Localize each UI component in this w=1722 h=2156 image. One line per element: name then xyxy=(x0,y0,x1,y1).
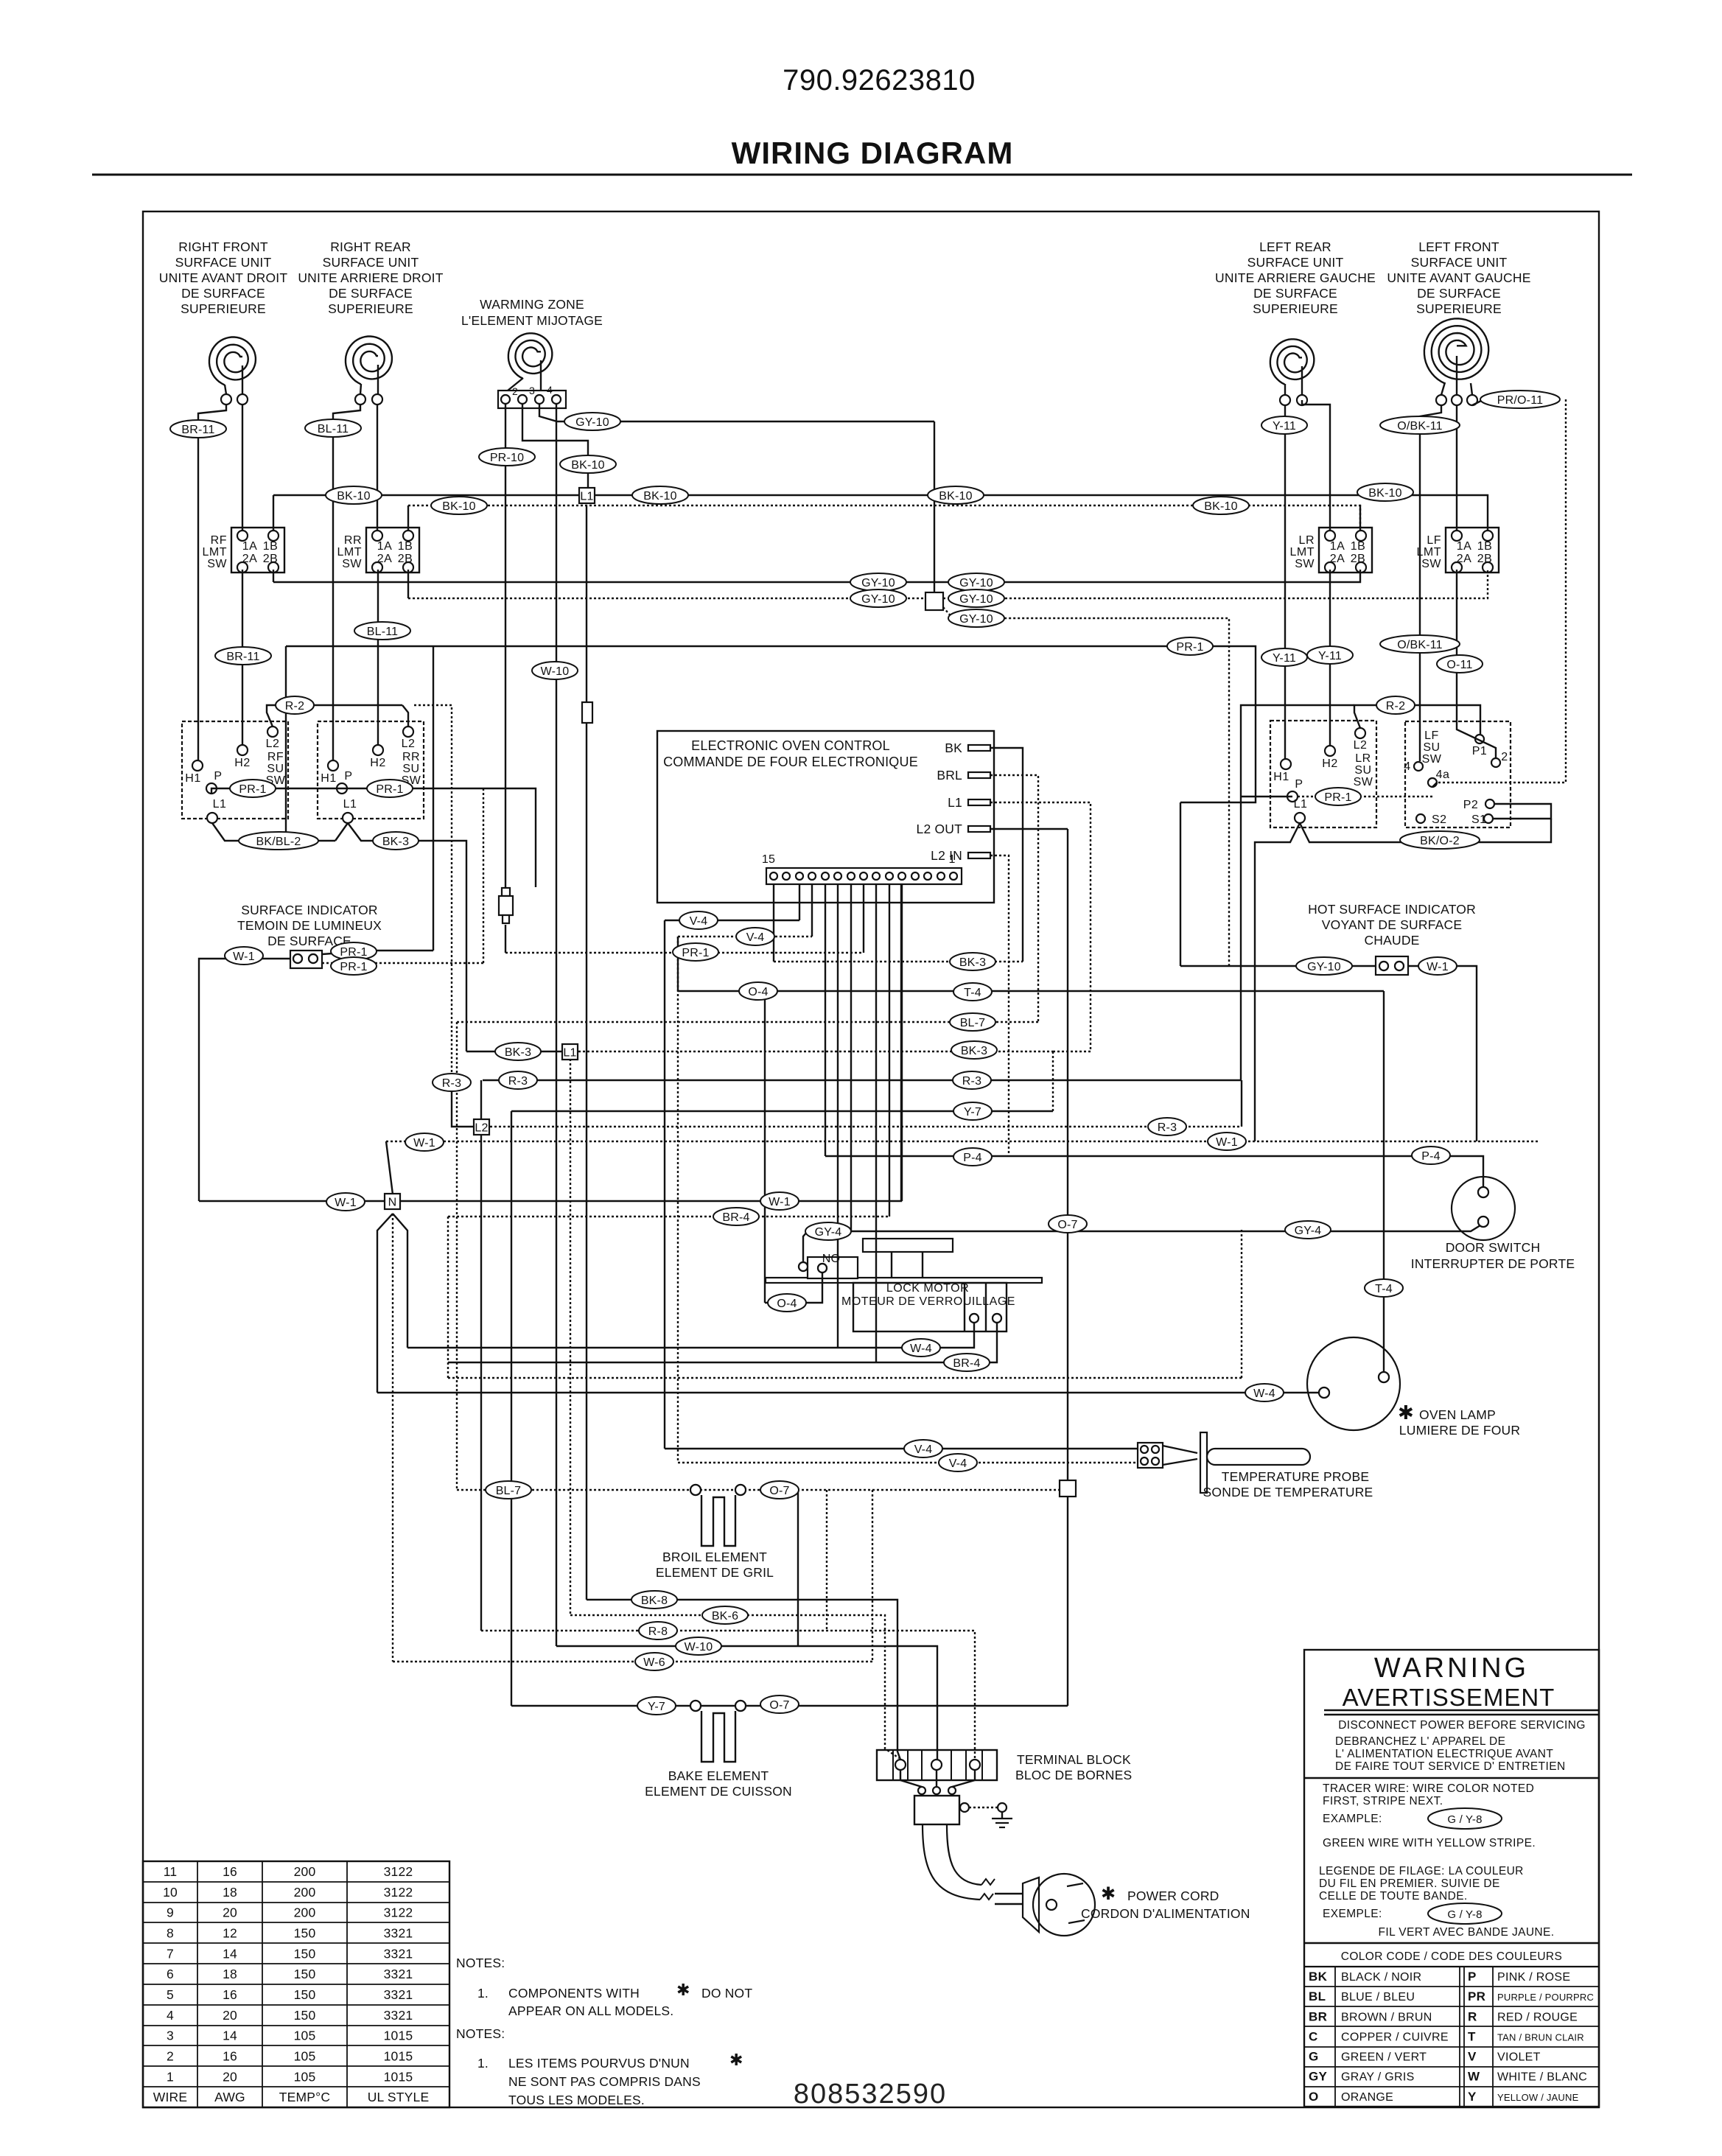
wire PR/O-11 LF xyxy=(1472,399,1553,405)
svg-text:BK-3: BK-3 xyxy=(505,1046,531,1059)
tb link xyxy=(900,1771,922,1787)
wire label W-10 xyxy=(676,1637,721,1655)
svg-text:200: 200 xyxy=(294,1905,316,1920)
svg-text:H1: H1 xyxy=(1273,771,1289,783)
wire label BL-11 xyxy=(354,622,410,640)
wire RR 2A to H2 BL-11 xyxy=(377,570,379,745)
svg-text:FIRST, STRIPE NEXT.: FIRST, STRIPE NEXT. xyxy=(1323,1795,1443,1807)
wire L2 IN pin xyxy=(990,855,1009,1156)
svg-text:S1: S1 xyxy=(1471,813,1487,826)
wire BK-10 bus solid xyxy=(273,494,579,496)
wire riser 1685 upper xyxy=(1241,1080,1242,1127)
svg-text:SURFACE UNIT: SURFACE UNIT xyxy=(175,255,272,270)
LF coil stem2 xyxy=(1456,356,1457,395)
wire LR L1 drop xyxy=(1255,823,1300,1141)
svg-text:PURPLE / POURPRC: PURPLE / POURPRC xyxy=(1497,1992,1594,2003)
wire label BK-10 xyxy=(632,486,688,504)
wire T-4 vertical xyxy=(1383,991,1385,1372)
svg-text:1A: 1A xyxy=(377,540,393,553)
svg-text:H1: H1 xyxy=(321,772,336,785)
probe lead xyxy=(1163,1446,1197,1453)
RR limit switch xyxy=(337,528,420,573)
svg-text:CHAUDE: CHAUDE xyxy=(1364,933,1419,948)
svg-text:BK-3: BK-3 xyxy=(959,956,986,969)
svg-text:L2: L2 xyxy=(475,1122,488,1135)
wire V-4 riser 1 xyxy=(664,920,665,1449)
svg-text:T-4: T-4 xyxy=(964,987,981,999)
junction L1 xyxy=(579,488,595,503)
svg-text:12: 12 xyxy=(223,1925,237,1940)
svg-text:ELEMENT DE GRIL: ELEMENT DE GRIL xyxy=(656,1565,774,1580)
svg-text:TAN / BRUN CLAIR: TAN / BRUN CLAIR xyxy=(1497,2031,1584,2043)
junction O-7 xyxy=(1060,1480,1076,1497)
wire R-3 line xyxy=(483,1079,1241,1081)
svg-text:INTERRUPTER DE PORTE: INTERRUPTER DE PORTE xyxy=(1411,1256,1575,1271)
svg-text:3321: 3321 xyxy=(384,2008,413,2023)
power cord xyxy=(923,1824,980,1900)
LR SU SW terminals xyxy=(1355,728,1365,738)
svg-text:1015: 1015 xyxy=(384,2069,413,2084)
svg-text:200: 200 xyxy=(294,1885,316,1900)
svg-text:✱: ✱ xyxy=(1101,1884,1116,1904)
tb link xyxy=(952,1771,975,1787)
svg-text:R-2: R-2 xyxy=(1386,700,1405,713)
svg-text:LES ITEMS POURVUS D'NUN: LES ITEMS POURVUS D'NUN xyxy=(508,2056,690,2071)
wire label Y-7 xyxy=(637,1697,676,1715)
svg-text:20: 20 xyxy=(223,2008,237,2023)
svg-text:PR-1: PR-1 xyxy=(1324,791,1351,804)
wire label BR-11 xyxy=(170,420,226,438)
svg-text:7: 7 xyxy=(167,1946,174,1961)
wire strip t8 drop xyxy=(863,884,864,953)
wire 4a lead xyxy=(1432,783,1437,787)
svg-text:PR-1: PR-1 xyxy=(340,961,367,973)
svg-text:R-3: R-3 xyxy=(508,1075,528,1088)
svg-text:L2: L2 xyxy=(1354,739,1368,752)
svg-text:GRAY / GRIS: GRAY / GRIS xyxy=(1341,2071,1415,2084)
svg-text:H1: H1 xyxy=(185,772,200,785)
wire BK/O-2 line xyxy=(1300,819,1551,842)
svg-text:UNITE AVANT DROIT: UNITE AVANT DROIT xyxy=(159,270,288,285)
bake zigzag xyxy=(701,1711,735,1762)
wire L2 OUT pin xyxy=(990,828,1068,830)
wire label BK-10 xyxy=(431,497,487,514)
wire label V-4 xyxy=(679,911,718,929)
svg-text:SUPERIEURE: SUPERIEURE xyxy=(328,301,413,316)
svg-text:BL-7: BL-7 xyxy=(960,1017,986,1029)
svg-text:UNITE ARRIERE DROIT: UNITE ARRIERE DROIT xyxy=(298,270,443,285)
svg-text:PINK / ROSE: PINK / ROSE xyxy=(1497,1971,1570,1984)
wire label Y-11 xyxy=(1307,646,1353,664)
svg-text:WIRE: WIRE xyxy=(153,2090,188,2104)
svg-text:R-3: R-3 xyxy=(962,1075,981,1088)
svg-text:PR: PR xyxy=(1468,1989,1485,2003)
svg-text:W-1: W-1 xyxy=(335,1197,357,1209)
svg-text:LMT: LMT xyxy=(1290,546,1315,559)
wire O-4 lock line xyxy=(765,1273,822,1303)
svg-text:EXEMPLE:: EXEMPLE: xyxy=(1323,1908,1382,1920)
svg-text:2A: 2A xyxy=(242,553,258,565)
wire N to W-4 slant xyxy=(393,1214,407,1348)
svg-text:9: 9 xyxy=(167,1905,174,1920)
wire strip t5 drop xyxy=(901,884,903,1201)
svg-text:1B: 1B xyxy=(1477,540,1493,553)
RF limit switch xyxy=(203,528,285,573)
wire LF 2A down O-11 xyxy=(1457,570,1496,758)
svg-text:BK: BK xyxy=(1309,1970,1328,1984)
svg-text:GY-10: GY-10 xyxy=(861,593,895,606)
svg-text:1: 1 xyxy=(167,2069,174,2084)
svg-text:BK/BL-2: BK/BL-2 xyxy=(256,836,301,848)
junction L1 lower xyxy=(562,1044,578,1060)
wire N to lamp slant xyxy=(377,1214,393,1393)
svg-text:P: P xyxy=(344,770,352,783)
svg-text:L1: L1 xyxy=(343,798,357,811)
svg-text:S2: S2 xyxy=(1432,813,1447,826)
ground lead xyxy=(969,1807,998,1808)
svg-text:14: 14 xyxy=(223,2029,237,2043)
svg-text:BROIL ELEMENT: BROIL ELEMENT xyxy=(662,1550,767,1564)
terminal block lower connector xyxy=(914,1796,959,1824)
svg-text:10: 10 xyxy=(163,1885,178,1900)
junction L2 xyxy=(474,1119,489,1135)
wire label PR-1 xyxy=(367,780,413,797)
wire BK-3 line upper xyxy=(774,961,1023,962)
wire O-4 riser xyxy=(677,937,679,991)
hot surface indicator lamp xyxy=(1376,956,1408,975)
svg-text:P: P xyxy=(214,770,222,783)
wire label P-4 xyxy=(1412,1147,1450,1164)
svg-text:ELEMENT DE CUISSON: ELEMENT DE CUISSON xyxy=(645,1784,792,1799)
svg-text:2A: 2A xyxy=(377,553,393,565)
wire BR-4 left riser xyxy=(447,1217,449,1378)
svg-text:DU FIL EN PREMIER. SUIVIE: DU FIL EN PREMIER. SUIVIE DE xyxy=(1319,1877,1500,1890)
wire label O-7 xyxy=(760,1695,799,1713)
svg-text:808532590: 808532590 xyxy=(794,2079,947,2110)
svg-text:BR-4: BR-4 xyxy=(722,1211,749,1224)
svg-text:DE SURFACE: DE SURFACE xyxy=(1253,286,1337,301)
wire W-1 line xyxy=(386,1141,393,1194)
svg-text:WHITE / BLANC: WHITE / BLANC xyxy=(1497,2071,1587,2084)
lock motor box xyxy=(853,1283,1007,1331)
svg-text:4: 4 xyxy=(1404,760,1410,773)
svg-text:SURFACE INDICATOR: SURFACE INDICATOR xyxy=(241,903,378,917)
wire R-2 RF L2 xyxy=(267,705,279,727)
RF coil stem xyxy=(225,385,226,394)
wire label PR-1 xyxy=(230,780,276,797)
wire strip t13 drop xyxy=(799,884,800,920)
wire label PR-1 xyxy=(331,942,377,960)
wire label W-4 xyxy=(1245,1384,1284,1401)
svg-text:G: G xyxy=(1309,2050,1319,2064)
wire Y-7 bake line xyxy=(511,1705,1068,1707)
svg-text:P-4: P-4 xyxy=(963,1152,982,1164)
svg-text:RR: RR xyxy=(402,751,420,763)
svg-text:R-8: R-8 xyxy=(648,1625,668,1638)
wire N feed down xyxy=(392,1214,393,1662)
svg-text:Y-7: Y-7 xyxy=(964,1106,981,1119)
wire Y-7 riser xyxy=(511,1111,512,1706)
wire label BR-4 xyxy=(944,1354,990,1371)
svg-text:16: 16 xyxy=(223,1864,237,1879)
wire label GY-10 xyxy=(1296,957,1352,975)
surface switch LR SU SW xyxy=(1270,721,1376,827)
wire V-4 probe 1 xyxy=(665,1448,1138,1449)
wire label BL-7 xyxy=(950,1013,995,1031)
wire RR 2B to GY bus xyxy=(407,570,409,598)
svg-text:PR-1: PR-1 xyxy=(682,947,709,959)
svg-text:20: 20 xyxy=(223,1905,237,1920)
svg-text:ORANGE: ORANGE xyxy=(1341,2091,1393,2104)
svg-text:R-2: R-2 xyxy=(285,700,304,713)
svg-text:RF: RF xyxy=(267,751,284,763)
svg-text:RR: RR xyxy=(344,534,362,547)
wire label O-7 xyxy=(1049,1215,1087,1233)
wire label GY-10 xyxy=(948,589,1004,607)
wire strip t9 drop xyxy=(850,884,852,1231)
wire label O-4 xyxy=(739,982,777,1000)
fuse on L1 line xyxy=(582,702,592,723)
wire GY-10 bus upper xyxy=(273,570,1360,582)
wire PR-1 LR P right xyxy=(1298,796,1432,797)
wire label W-6 xyxy=(635,1653,673,1670)
wire label Y-7 xyxy=(953,1102,992,1120)
wire label GY-4 xyxy=(805,1222,851,1240)
wire O-4 lock riser xyxy=(764,991,766,1303)
svg-text:18: 18 xyxy=(223,1967,237,1981)
svg-text:TEMP°C: TEMP°C xyxy=(279,2090,330,2104)
wire label GY-4 xyxy=(1285,1221,1331,1239)
wire W-1 long line xyxy=(386,1141,1540,1142)
wire RF right terminal to 1A xyxy=(242,405,243,531)
svg-text:P-4: P-4 xyxy=(1421,1150,1441,1163)
svg-text:BK-6: BK-6 xyxy=(712,1610,738,1623)
svg-text:W-10: W-10 xyxy=(541,665,570,678)
svg-text:LF: LF xyxy=(1427,534,1441,547)
lock motor cam xyxy=(863,1239,953,1252)
wire PR-1 riser 656 xyxy=(483,788,484,963)
svg-text:TRACER WIRE: WIRE COLOR NOTED: TRACER WIRE: WIRE COLOR NOTED xyxy=(1323,1782,1534,1795)
svg-text:2: 2 xyxy=(1501,751,1508,763)
wire label R-3 xyxy=(953,1071,991,1089)
wire BRL pin xyxy=(990,775,1038,1022)
wire Y-11 LR H1 xyxy=(1284,405,1286,759)
svg-text:BK-3: BK-3 xyxy=(382,836,409,848)
fuse on PR-10 line xyxy=(502,888,510,896)
wire P2 S1 loop xyxy=(1493,804,1551,819)
svg-text:6: 6 xyxy=(167,1967,174,1981)
wire label O/BK-11 xyxy=(1380,635,1460,653)
svg-text:R: R xyxy=(1468,2009,1477,2023)
wire PR-1 LR P xyxy=(1241,796,1292,797)
wire label V-4 xyxy=(939,1454,977,1471)
svg-text:T-4: T-4 xyxy=(1375,1283,1393,1295)
svg-text:LMT: LMT xyxy=(203,546,228,559)
wire label W-1 xyxy=(326,1193,365,1211)
svg-text:BK-10: BK-10 xyxy=(1204,500,1237,513)
svg-text:GY-10: GY-10 xyxy=(1307,961,1341,973)
wire R-2 left branch xyxy=(1241,705,1354,1080)
wire label GY-10 xyxy=(948,609,1004,627)
wire label GY-10 xyxy=(948,573,1004,591)
RF coil stem2 xyxy=(242,365,243,394)
surface indicator lamp xyxy=(290,951,322,968)
wire label BK-8 xyxy=(631,1591,677,1609)
svg-text:3321: 3321 xyxy=(384,1925,413,1940)
svg-text:PR-1: PR-1 xyxy=(1176,641,1203,654)
svg-text:1.: 1. xyxy=(477,2056,489,2071)
svg-text:L2: L2 xyxy=(402,738,416,750)
svg-text:SW: SW xyxy=(1354,776,1373,788)
svg-text:YELLOW / JAUNE: YELLOW / JAUNE xyxy=(1497,2092,1579,2103)
wire label GY-10 xyxy=(850,573,906,591)
wire PR-1 fuse line xyxy=(505,952,864,953)
element terminals overlay xyxy=(690,1485,701,1495)
wire BK-3 RR L1 xyxy=(348,823,466,1051)
svg-text:WARMING ZONE: WARMING ZONE xyxy=(480,297,584,312)
svg-text:W-4: W-4 xyxy=(910,1343,932,1355)
wire label GY-10 xyxy=(850,589,906,607)
svg-text:O-7: O-7 xyxy=(769,1485,789,1497)
svg-text:H2: H2 xyxy=(234,757,250,769)
svg-text:L1: L1 xyxy=(213,798,227,811)
svg-text:O/BK-11: O/BK-11 xyxy=(1397,639,1443,651)
probe lead xyxy=(1163,1459,1197,1465)
svg-text:Y-11: Y-11 xyxy=(1318,650,1342,662)
svg-text:SU: SU xyxy=(1354,764,1371,777)
wire label V-4 xyxy=(736,928,774,945)
cam leg xyxy=(891,1252,892,1278)
svg-text:GY-4: GY-4 xyxy=(1295,1225,1322,1237)
wire R-8 line xyxy=(481,1631,975,1760)
wire BK-8 line xyxy=(587,1600,900,1760)
wire RF 2B to GY bus xyxy=(273,570,274,582)
svg-text:PR/O-11: PR/O-11 xyxy=(1497,394,1543,407)
svg-text:V-4: V-4 xyxy=(914,1443,933,1456)
svg-text:SUPERIEURE: SUPERIEURE xyxy=(1416,301,1502,316)
wire label V-4 xyxy=(904,1440,942,1457)
svg-text:BK: BK xyxy=(945,741,962,755)
wire V-4 line 2 xyxy=(678,936,812,937)
svg-text:SURFACE UNIT: SURFACE UNIT xyxy=(1411,255,1508,270)
svg-text:LR: LR xyxy=(1355,752,1371,765)
svg-text:BL-11: BL-11 xyxy=(367,626,399,638)
LF coil stem xyxy=(1441,382,1445,395)
wire BK-3 line lower right xyxy=(578,1051,1053,1052)
lock motor divider xyxy=(985,1283,987,1331)
cord lead xyxy=(995,1903,1023,1905)
LF coil stem3 xyxy=(1471,383,1472,395)
wire RF 2A to H2 BR-11 xyxy=(242,570,243,745)
wire W-1 N line xyxy=(199,1200,385,1202)
wire GY-10 warming 3 xyxy=(539,404,934,421)
wire PR-1 riser 588 xyxy=(433,646,434,951)
svg-text:OVEN LAMP: OVEN LAMP xyxy=(1419,1407,1496,1422)
svg-text:POWER CORD: POWER CORD xyxy=(1127,1889,1219,1903)
wire R-2 right to P1 xyxy=(1368,705,1480,734)
svg-text:V-4: V-4 xyxy=(690,915,708,928)
wire label PR-10 xyxy=(479,448,535,466)
wire label PR-1 xyxy=(1315,788,1361,805)
wire R-2 RR L2 xyxy=(402,705,408,727)
svg-text:W-1: W-1 xyxy=(1427,961,1449,973)
LR coil stem xyxy=(1284,384,1286,395)
svg-text:4: 4 xyxy=(547,384,553,396)
svg-text:BAKE ELEMENT: BAKE ELEMENT xyxy=(668,1768,769,1783)
wire label BK-10 xyxy=(928,486,984,504)
wire R-2 right link xyxy=(1354,705,1368,728)
wire label BK-3 xyxy=(951,1041,997,1059)
svg-text:DE FAIRE TOUT SERVICE D' E: DE FAIRE TOUT SERVICE D' ENTRETIEN xyxy=(1335,1760,1566,1773)
svg-text:C: C xyxy=(1309,2029,1318,2043)
svg-text:COMPONENTS WITH: COMPONENTS WITH xyxy=(508,1986,640,2001)
surface unit coil RF xyxy=(209,337,256,385)
wire O/BK-11 LF xyxy=(1420,405,1441,761)
svg-text:150: 150 xyxy=(294,1925,316,1940)
svg-text:Y-11: Y-11 xyxy=(1273,420,1296,433)
wire label P-4 xyxy=(953,1148,992,1166)
wire PR-1 riser left xyxy=(285,646,287,841)
svg-text:SW: SW xyxy=(1421,558,1441,570)
wire GY-10 junction drop xyxy=(934,421,935,592)
wire gauge table xyxy=(143,1861,449,2107)
svg-text:P: P xyxy=(1468,1970,1477,1984)
svg-text:UNITE AVANT GAUCHE: UNITE AVANT GAUCHE xyxy=(1387,270,1530,285)
warning box xyxy=(1304,1650,1599,2107)
wire strip t11 drop xyxy=(825,884,826,1156)
wire LR 2A to H2 Y-11 xyxy=(1329,570,1331,746)
ground symbol xyxy=(960,1803,969,1812)
svg-text:2B: 2B xyxy=(398,553,413,565)
wire GY-10 to hot indicator xyxy=(1180,965,1376,967)
svg-text:L' ALIMENTATION ELECTRIQUE A: L' ALIMENTATION ELECTRIQUE AVANT xyxy=(1335,1748,1553,1760)
svg-text:16: 16 xyxy=(223,1987,237,2002)
RR coil stem xyxy=(360,384,361,394)
svg-text:W: W xyxy=(1468,2070,1480,2084)
svg-text:GY-10: GY-10 xyxy=(959,577,993,589)
svg-text:L1: L1 xyxy=(580,491,593,503)
wire L1#2 feed down xyxy=(570,1059,571,1615)
wire GY-10 bus lower xyxy=(408,598,925,599)
wire label BK-6 xyxy=(702,1606,748,1624)
wire label BK-3 xyxy=(495,1043,541,1060)
wire O-7 vertical xyxy=(1067,829,1068,1706)
svg-text:BR-4: BR-4 xyxy=(953,1357,980,1370)
svg-text:CORDON D'ALIMENTATION: CORDON D'ALIMENTATION xyxy=(1081,1906,1250,1921)
svg-text:BLACK / NOIR: BLACK / NOIR xyxy=(1341,1971,1421,1984)
svg-text:TERMINAL BLOCK: TERMINAL BLOCK xyxy=(1017,1752,1131,1767)
svg-text:BK-3: BK-3 xyxy=(961,1045,987,1057)
wire BR-4 lower line xyxy=(448,1323,997,1362)
wire label BR-4 xyxy=(713,1208,759,1225)
wire label PR-1 xyxy=(331,957,377,975)
wire label PR-1 xyxy=(1167,637,1213,655)
svg-text:14: 14 xyxy=(223,1946,237,1961)
svg-text:BL-11: BL-11 xyxy=(318,423,349,435)
svg-text:COMMANDE DE FOUR ELECTRONIQUE: COMMANDE DE FOUR ELECTRONIQUE xyxy=(663,755,918,769)
wire R-3 elbow xyxy=(452,1088,474,1127)
wire V-4 riser 2 xyxy=(677,937,679,1463)
wire label BL-7 xyxy=(486,1481,531,1499)
wire LF mid terminal to 1A xyxy=(1456,405,1457,531)
svg-text:TEMOIN DE LUMINEUX: TEMOIN DE LUMINEUX xyxy=(237,918,382,933)
svg-text:SURFACE UNIT: SURFACE UNIT xyxy=(323,255,419,270)
wire label W-1 xyxy=(1208,1133,1246,1150)
wire label R-3 xyxy=(1148,1118,1186,1135)
svg-text:W-1: W-1 xyxy=(233,951,255,963)
svg-text:BK-10: BK-10 xyxy=(442,500,475,513)
wire strip t6 drop xyxy=(889,884,890,1217)
